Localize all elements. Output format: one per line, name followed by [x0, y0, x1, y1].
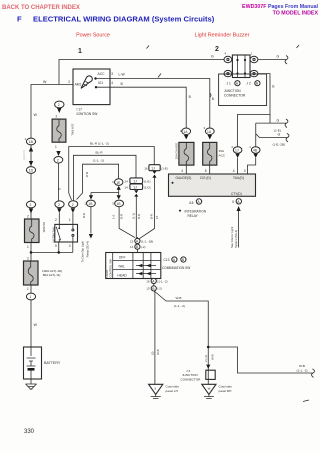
svg-text:2: 2: [72, 203, 74, 207]
continuation bracket W-B: [312, 369, 315, 378]
battery cells: [27, 347, 36, 366]
ground below battery: [30, 379, 32, 384]
svg-text:B: B: [212, 97, 214, 101]
svg-text:Relay (5D-4): Relay (5D-4): [86, 241, 90, 257]
svg-text:OFF: OFF: [119, 255, 126, 259]
funnel joins into relay-right connector: [69, 193, 74, 201]
svg-text:16: 16: [144, 166, 148, 170]
svg-text:Cowl side: Cowl side: [166, 385, 180, 389]
svg-text:4: 4: [233, 169, 235, 173]
arrow below: [184, 135, 188, 140]
svg-text:W: W: [34, 113, 38, 117]
connector above CIG fuse: [205, 128, 214, 135]
wire down from stack to comb funnel: [135, 196, 137, 240]
svg-text:1: 1: [30, 295, 32, 299]
svg-text:W-B: W-B: [156, 349, 160, 355]
svg-text:System (5G-2): System (5G-2): [234, 230, 238, 248]
svg-text:TAIL: TAIL: [118, 265, 125, 269]
svg-text:1: 1: [55, 145, 57, 149]
wire GAUGE fuse into J/B: [185, 165, 187, 174]
svg-text:ACC: ACC: [219, 153, 226, 157]
key glyph: [81, 76, 92, 88]
svg-text:C13: C13: [164, 258, 170, 262]
W-B wire: comb sw to right ground: [154, 291, 208, 384]
wire: G net fuse TAIL top feed: [59, 60, 224, 85]
svg-text:W: W: [43, 80, 47, 84]
svg-text:CTY(D): CTY(D): [231, 192, 242, 196]
junction connector (top) symbol: [232, 55, 250, 78]
continuation bracket (1-E,-2B): [286, 133, 289, 142]
svg-text:10A GAUGE: 10A GAUGE: [174, 143, 178, 160]
arrow below 4B: [254, 154, 258, 158]
arrow on right W-B wire: [206, 365, 210, 369]
svg-text:W-B: W-B: [211, 354, 215, 360]
HEAD contact line: [136, 273, 156, 275]
ignition switch box I17: [73, 69, 110, 105]
connector arrow up: [29, 147, 33, 152]
connector lower right: [115, 200, 124, 207]
svg-text:BACK TO CHAPTER INDEX: BACK TO CHAPTER INDEX: [2, 5, 80, 11]
svg-text:panel RH: panel RH: [219, 389, 232, 393]
svg-text:16: 16: [146, 279, 150, 283]
branch to right bracket: [208, 347, 312, 373]
junction connector group box: [219, 74, 267, 106]
fuse GAUGE: [179, 142, 194, 165]
arrow down: [89, 234, 93, 239]
wire 4B into J/B: [248, 158, 256, 174]
svg-text:TAIL RELAY: TAIL RELAY: [52, 227, 56, 243]
svg-text:RELAY: RELAY: [188, 214, 199, 218]
svg-text:B-R: B-R: [137, 214, 141, 219]
svg-text:IGNITION SW: IGNITION SW: [77, 112, 99, 116]
continuation bracket (1-E): [285, 119, 288, 128]
mating arrows below 1J: [152, 171, 156, 178]
svg-text:LIGHT: LIGHT: [105, 269, 109, 277]
svg-text:15A: 15A: [219, 149, 225, 153]
JC pin top-right: [250, 56, 258, 62]
svg-text:16: 16: [155, 215, 159, 219]
wire: TAIL fuse to relay: [57, 163, 59, 201]
svg-text:W-B: W-B: [176, 296, 182, 300]
connector below TAIL fuse: [54, 157, 63, 164]
BL-R wire 2: [73, 155, 136, 196]
svg-text:24: 24: [125, 179, 129, 183]
arrow below relay-right connector: [71, 208, 75, 213]
connector arrow below 2: [29, 209, 33, 214]
combination switch box: [106, 253, 161, 279]
svg-text:330: 330: [24, 429, 35, 435]
svg-text:(1-E): (1-E): [274, 128, 281, 132]
svg-text:GAUGE(S): GAUGE(S): [176, 176, 192, 180]
svg-text:J 1: J 1: [227, 82, 231, 86]
svg-text:5: 5: [232, 200, 234, 204]
svg-text:Cowl side: Cowl side: [219, 385, 233, 389]
svg-text:1: 1: [69, 218, 71, 222]
svg-text:1J: 1J: [235, 149, 239, 153]
svg-text:J 2: J 2: [247, 82, 251, 86]
wire: lower-right connector to comb funnel: [119, 207, 135, 238]
comb sw node A: [136, 237, 138, 238]
svg-text:BATTERY: BATTERY: [44, 361, 61, 365]
fuse CIG: [203, 142, 217, 165]
svg-text:I18: I18: [189, 201, 194, 205]
wire node B to box: [136, 249, 138, 252]
arrow down left: [89, 195, 93, 199]
relay contact right: [72, 224, 74, 242]
JC pin bottom-right: [250, 70, 258, 76]
right ground triangle: [202, 384, 216, 394]
svg-text:1-6: 1-6: [111, 214, 115, 219]
svg-text:2: 2: [27, 215, 29, 219]
svg-text:AM1: AM1: [75, 83, 82, 87]
W-B wire: comb sw to left ground: [153, 291, 156, 384]
svg-text:B-R: B-R: [82, 213, 86, 218]
connector above GAUGE fuse: [182, 128, 191, 135]
wire: to DRL reference: [90, 207, 92, 234]
svg-text:2: 2: [55, 218, 57, 222]
svg-text:G: G: [277, 118, 280, 122]
svg-text:To Dim-Dip Light: To Dim-Dip Light: [81, 241, 85, 263]
svg-text:15: 15: [130, 239, 134, 243]
svg-text:panel LH: panel LH: [166, 389, 178, 393]
wire: lower G branch to bracket (1-E): [256, 122, 286, 124]
continuation bracket top right: [285, 56, 288, 65]
svg-text:1B: 1B: [29, 140, 34, 144]
svg-text:(1-1, -1B): (1-1, -1B): [141, 239, 153, 243]
connector 1B on battery wire: [26, 138, 35, 145]
wire 1J to J/B pin 4: [237, 158, 239, 174]
svg-text:(1-D): (1-D): [144, 185, 151, 189]
svg-text:(GRAY): (GRAY): [22, 150, 26, 160]
svg-text:3: 3: [244, 169, 246, 173]
arrow down right: [117, 195, 121, 199]
svg-text:W: W: [34, 323, 38, 327]
junction dot battery branch: [30, 251, 33, 254]
connector 4B: [251, 147, 260, 154]
svg-text:8: 8: [205, 169, 207, 173]
connector 2 above AM1 fuse: [26, 201, 35, 208]
ignition contact IG1: [95, 86, 97, 88]
connector arrow below TAIL fuse: [56, 151, 60, 156]
svg-text:2: 2: [56, 115, 58, 119]
svg-text:2: 2: [27, 257, 29, 261]
svg-text:(1-1): (1-1): [132, 213, 136, 219]
svg-text:EWD307F Pages From Manual: EWD307F Pages From Manual: [242, 4, 318, 10]
svg-text:4: 4: [111, 81, 113, 85]
bullet in J/B: [172, 182, 174, 184]
svg-text:2: 2: [215, 46, 219, 53]
relay switch blade: [56, 227, 60, 240]
battery box: [24, 347, 42, 379]
JC pin top-left: [224, 56, 232, 62]
svg-text:1J: 1J: [133, 180, 137, 184]
svg-text:G: G: [277, 55, 280, 59]
svg-text:(1-E): (1-E): [161, 166, 167, 170]
wire: spine branch left at 114.4 down to connector: [238, 114, 271, 146]
svg-text:(-2): (-2): [141, 245, 146, 249]
svg-text:14: 14: [130, 245, 134, 249]
svg-text:BL-R (1-1, -2): BL-R (1-1, -2): [90, 141, 109, 145]
connector above relay left: [55, 201, 64, 208]
bus bar A: [237, 55, 239, 78]
wire: JC top-right to right bracket G: [258, 59, 286, 61]
svg-text:TAIL(D): TAIL(D): [233, 176, 244, 180]
mating arrows below stack: [134, 190, 138, 196]
svg-text:INTEGRATION: INTEGRATION: [185, 209, 207, 213]
connector 1D on battery wire: [26, 167, 35, 174]
left ground triangle: [149, 384, 163, 394]
svg-text:10A TAIL: 10A TAIL: [71, 124, 75, 137]
svg-text:IG1: IG1: [98, 81, 103, 85]
svg-text:B: B: [189, 95, 191, 99]
svg-text:B-R: B-R: [85, 172, 89, 178]
svg-text:B-R: B-R: [149, 214, 153, 219]
wire down from 1J to comb funnel: [138, 177, 154, 239]
arrow below relay-left connector: [57, 208, 61, 213]
wire: ACC output L-W: [96, 79, 210, 129]
stray mark bottom right: [303, 400, 309, 402]
wire down to interior light ref: [238, 211, 240, 248]
arrow below: [208, 135, 212, 140]
arrow below pointing up: [237, 206, 241, 211]
bus bar B: [244, 55, 246, 78]
splice tick on ACC wire: [158, 74, 161, 78]
connector arrow below: [57, 108, 61, 113]
svg-text:JUNCTION: JUNCTION: [224, 89, 241, 93]
svg-text:2 (-2): 2 (-2): [204, 355, 208, 362]
svg-text:(1-E): (1-E): [144, 179, 150, 183]
wire CIG fuse into J/B: [209, 165, 211, 174]
wire: branch to tail relay: [31, 242, 73, 252]
tiny continuation mark right: [297, 45, 300, 48]
fuse AM1: [25, 219, 40, 243]
svg-text:1D: 1D: [29, 169, 34, 173]
relay box TAIL RELAY: [55, 224, 78, 242]
junction block J/B box: [169, 174, 256, 196]
svg-text:2: 2: [57, 159, 59, 163]
BL-R wire 1: [69, 147, 155, 194]
grid verticals: [133, 253, 151, 279]
svg-text:HEAD: HEAD: [117, 273, 127, 277]
connector box 1J stack a (wire2): [130, 178, 143, 184]
wire T split: [91, 190, 119, 196]
svg-text:2: 2: [30, 203, 32, 207]
B-R wire 3: [77, 164, 119, 199]
J3 junction connector box: [206, 370, 215, 379]
svg-text:3: 3: [69, 244, 71, 248]
fuse TAIL 10A: [52, 119, 66, 142]
svg-text:3: 3: [111, 72, 113, 76]
svg-text:TO MODEL INDEX: TO MODEL INDEX: [273, 11, 319, 17]
svg-text:1: 1: [27, 245, 29, 249]
svg-text:(1-E,-2B): (1-E,-2B): [273, 142, 286, 146]
wire relay left top: [58, 213, 60, 225]
svg-text:1J: 1J: [133, 186, 137, 190]
comb sw node B: [135, 244, 140, 249]
svg-text:1: 1: [27, 287, 29, 291]
svg-text:5A AM1: 5A AM1: [42, 222, 46, 233]
svg-text:100A ALT(-1D): 100A ALT(-1D): [42, 269, 62, 273]
svg-text:BL-R: BL-R: [96, 150, 104, 154]
svg-text:Power Source: Power Source: [76, 33, 110, 39]
junction dot relay pin5: [57, 251, 60, 254]
wire: sub-branch to bracket (1-E,-2B): [256, 134, 287, 138]
svg-text:L-W: L-W: [119, 73, 126, 77]
junction dot right W-B: [207, 346, 210, 349]
JC pin bottom-left: [224, 70, 232, 76]
svg-text:COMBINATION SW: COMBINATION SW: [162, 266, 190, 270]
svg-text:2: 2: [58, 103, 60, 107]
wire: battery W feed vertical and to ignition AM1: [31, 85, 73, 348]
tiny continuation mark mid: [147, 46, 150, 49]
svg-text:B-R: B-R: [120, 214, 124, 219]
connector 2 above TAIL fuse: [55, 101, 64, 108]
arrow up below ellipse: [117, 186, 121, 190]
svg-text:Light Reminder Buzzer: Light Reminder Buzzer: [195, 33, 250, 39]
wire: branch down from lower G to 4B connector: [255, 123, 257, 147]
svg-text:CONNECTOR: CONNECTOR: [181, 377, 202, 381]
svg-text:13: 13: [146, 287, 150, 291]
svg-text:W-B: W-B: [299, 364, 305, 368]
ignition contact ACC: [94, 77, 96, 79]
svg-text:1J: 1J: [151, 167, 155, 171]
svg-text:(1-1, -2): (1-1, -2): [93, 159, 104, 163]
svg-text:1: 1: [78, 48, 82, 55]
svg-text:(-2): (-2): [157, 287, 162, 291]
svg-text:ACC: ACC: [98, 72, 106, 76]
left strip divider: [112, 253, 114, 279]
row dividers: [113, 260, 161, 269]
svg-text:FELECTRICAL WIRING DIAGRAM (Sy: FELECTRICAL WIRING DIAGRAM (System Circu…: [17, 15, 215, 24]
tick hook on ACC vertical: [210, 93, 211, 97]
svg-text:5: 5: [55, 244, 57, 248]
svg-text:CONNECTOR: CONNECTOR: [224, 94, 246, 98]
svg-text:CONTROL SW: CONTROL SW: [109, 259, 113, 278]
svg-text:(2): (2): [150, 351, 154, 355]
svg-text:14: 14: [125, 185, 129, 189]
wire: JC bottom-right pin to TAIL(D) spine: [258, 74, 270, 124]
svg-text:2: 2: [68, 80, 70, 84]
connector lower left: [87, 200, 96, 207]
wire: IG1 output B: [96, 87, 186, 128]
svg-text:80A ALT(-11): 80A ALT(-11): [43, 273, 61, 277]
comb sw bottom pins: [153, 278, 155, 280]
connector pair on wire 3: [115, 179, 123, 186]
connector 1J on TAIL(D) wire: [233, 147, 242, 154]
relay coil bar: [58, 224, 60, 242]
arrow below 1J: [235, 154, 239, 158]
connector arrow down: [29, 161, 33, 166]
svg-text:G: G: [272, 85, 275, 89]
svg-text:G: G: [278, 133, 281, 137]
connector on battery wire lower: [26, 293, 35, 300]
svg-text:(1-1, -2): (1-1, -2): [297, 369, 308, 373]
fuse ALT: [24, 261, 39, 285]
svg-text:4: 4: [181, 169, 183, 173]
svg-text:G: G: [211, 55, 214, 59]
connector box 1J stack b: [130, 184, 143, 190]
svg-text:CIG (D): CIG (D): [200, 176, 211, 180]
funnel connector above relay right: [69, 201, 78, 208]
svg-text:(1-1, -2): (1-1, -2): [157, 279, 167, 283]
svg-text:2: 2: [58, 203, 60, 207]
connector box 1J (wire1): [149, 165, 160, 171]
svg-text:W: W: [208, 386, 211, 390]
svg-text:(1-1, -2): (1-1, -2): [174, 304, 185, 308]
bullet INTEGRATION RELAY: [179, 210, 181, 212]
TAIL contact line: [136, 265, 156, 267]
wire relay right top: [72, 213, 74, 225]
